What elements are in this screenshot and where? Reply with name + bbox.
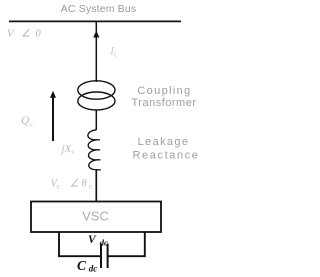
svg-text:V∠0: V∠0 — [7, 29, 42, 40]
wire: transformer to reactance — [95, 110, 97, 130]
svg-text:Coupling: Coupling — [137, 85, 191, 97]
svg-text:Cdc: Cdc — [77, 258, 97, 273]
svg-text:jXs: jXs — [60, 143, 75, 156]
svg-text:Reactance: Reactance — [133, 150, 200, 162]
svg-text:Transformer: Transformer — [132, 97, 197, 109]
svg-text:Ic: Ic — [109, 44, 118, 59]
wire: AC system bus bar — [9, 20, 181, 22]
svg-text:Qc: Qc — [21, 115, 33, 128]
wire: dc bus left segment — [58, 255, 101, 257]
svg-text:VSC: VSC — [82, 209, 109, 224]
capacitor Cdc left plate — [100, 244, 102, 269]
inductor L: leakage reactance coil — [88, 130, 101, 170]
svg-text:AC System Bus: AC System Bus — [61, 3, 136, 15]
svg-text:Leakage: Leakage — [138, 136, 190, 148]
wire: VSC left dc leg — [58, 232, 60, 257]
wire: VSC right dc leg — [144, 232, 146, 257]
wire: reactance to VSC — [95, 169, 97, 202]
svg-text:Vc∠θc: Vc∠θc — [51, 179, 94, 191]
capacitor Cdc right plate — [107, 244, 109, 269]
wire: dc bus right segment — [107, 255, 146, 257]
reactive power arrow Qc — [52, 96, 54, 141]
converter U1: VSC box — [31, 202, 161, 233]
current arrow Ic head — [93, 31, 99, 38]
coupling transformer T1 upper winding — [78, 81, 115, 99]
coupling transformer T1 lower winding — [78, 92, 115, 110]
svg-text:Vdc: Vdc — [88, 234, 108, 248]
wire: bus to coupling transformer — [95, 21, 97, 82]
